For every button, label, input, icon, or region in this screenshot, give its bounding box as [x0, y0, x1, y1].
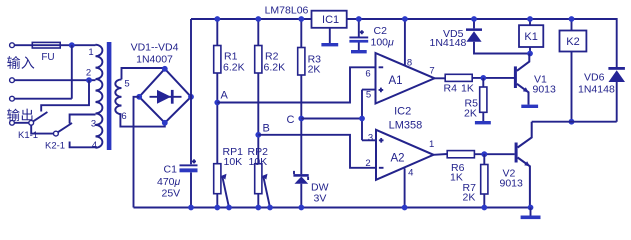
svg-text:4: 4: [408, 168, 413, 179]
svg-text:1: 1: [429, 139, 434, 150]
wire R4 to V1 base: [472, 77, 514, 79]
wire dot1 down to output-top: [71, 45, 73, 98]
ground R5: [475, 121, 491, 124]
svg-text:LM78L06: LM78L06: [265, 5, 309, 17]
svg-text:C2: C2: [374, 25, 388, 37]
svg-text:B: B: [263, 123, 270, 135]
svg-text:3: 3: [91, 119, 96, 130]
bridge inner diode: [150, 96, 182, 98]
op-amp A2: [376, 130, 434, 180]
svg-text:VD1--VD4: VD1--VD4: [131, 42, 179, 54]
svg-text:LM358: LM358: [389, 120, 423, 132]
svg-text:2K: 2K: [463, 192, 476, 204]
resistor R5: [482, 78, 484, 121]
wire top +V rail: [191, 19, 617, 67]
ground V1 emitter: [521, 105, 538, 108]
ground C2: [351, 50, 367, 53]
wire R6 to V2 base: [474, 153, 514, 155]
svg-text:10K: 10K: [224, 156, 243, 168]
wire node A to A1 pin6: [217, 67, 375, 102]
svg-text:2: 2: [86, 68, 91, 79]
node bridge top: [162, 66, 168, 72]
node B: [255, 132, 261, 138]
svg-text:3: 3: [368, 133, 373, 144]
op-amp A1: [376, 53, 435, 104]
resistor R6: [447, 151, 474, 158]
svg-text:1N4148: 1N4148: [430, 37, 467, 49]
wire bottom ground rail: [134, 207, 531, 209]
svg-text:10K: 10K: [249, 156, 268, 168]
contact K2-1 pivot: [54, 131, 59, 136]
resistor R1: [216, 19, 218, 164]
wire bridge right up to +rail and down through C1: [190, 19, 192, 208]
svg-text:25V: 25V: [162, 188, 181, 200]
wire tap4 to K2-1 lower fixed: [70, 142, 96, 148]
svg-text:6.2K: 6.2K: [223, 62, 245, 74]
svg-text:2: 2: [365, 158, 370, 169]
svg-text:K2: K2: [566, 36, 579, 48]
fuse FU: [32, 42, 60, 48]
pin 4 wire to ground rail: [404, 168, 406, 207]
diode VD6: [616, 67, 618, 122]
svg-text:1N4007: 1N4007: [136, 54, 173, 66]
svg-text:6: 6: [365, 69, 370, 80]
potentiometer RP2: [255, 164, 262, 194]
svg-text:A1: A1: [388, 75, 402, 87]
svg-text:K1-1: K1-1: [18, 130, 38, 141]
svg-text:K1: K1: [524, 31, 537, 43]
svg-text:3V: 3V: [314, 193, 327, 205]
svg-text:7: 7: [429, 66, 434, 77]
wire pin6 to bridge bottom: [120, 114, 164, 126]
ground at rail end: [528, 205, 534, 211]
relay coil K2: [560, 31, 587, 52]
svg-text:5: 5: [124, 79, 129, 90]
wire V2 collector line: [532, 121, 617, 123]
wire to tap 2: [15, 79, 96, 81]
pin 7 output wire: [435, 77, 446, 79]
contact K2-1 lever: [58, 123, 72, 132]
svg-text:2K: 2K: [308, 64, 321, 76]
wire K1-1 pivot to K2-1 pivot: [31, 125, 53, 133]
wire dot2 to K1-1 fixed contact: [41, 80, 89, 111]
label 输出: [7, 109, 32, 121]
wire: [15, 44, 96, 46]
wire bridge left to ground rail: [134, 97, 140, 208]
capacitor C2: [358, 19, 360, 50]
svg-text:4: 4: [92, 140, 97, 151]
bridge rectifier VD1--VD4: [139, 69, 191, 123]
svg-text:470μ: 470μ: [157, 176, 181, 188]
svg-text:C: C: [287, 114, 295, 126]
resistor R3: [300, 19, 302, 174]
svg-text:A2: A2: [390, 153, 404, 165]
svg-text:5: 5: [366, 90, 371, 101]
node bridge left: [136, 94, 142, 100]
resistor R2: [257, 19, 259, 164]
svg-text:1K: 1K: [461, 83, 474, 95]
capacitor C1: [180, 164, 198, 166]
svg-text:C1: C1: [164, 164, 178, 176]
ground IC1: [329, 28, 331, 43]
svg-text:100μ: 100μ: [371, 37, 395, 49]
svg-text:1: 1: [88, 47, 93, 58]
resistor R4: [445, 74, 472, 81]
transformer core: [107, 42, 112, 150]
wire pin5 to bridge top: [122, 68, 165, 79]
wire: [15, 122, 29, 124]
wire node C to A1 pin5 and A2 pin3: [301, 90, 376, 141]
svg-text:8: 8: [407, 58, 412, 69]
terminal 输入 top: [10, 43, 15, 48]
wire tap3 to K2-1 fixed: [70, 115, 96, 124]
transistor V1: [514, 66, 517, 88]
svg-text:1N4148: 1N4148: [578, 84, 615, 96]
svg-text:9013: 9013: [500, 178, 524, 190]
terminal 输出 bottom: [10, 120, 15, 125]
contact K1-1 pivot: [29, 120, 34, 125]
relay coil K1: [519, 25, 543, 47]
svg-text:A: A: [221, 90, 229, 102]
svg-text:6.2K: 6.2K: [264, 62, 286, 74]
pin 1 output wire: [434, 153, 448, 156]
contact K1-1 lever: [33, 112, 47, 121]
svg-text:K2-1: K2-1: [45, 141, 65, 152]
node A: [214, 100, 220, 106]
wire: [15, 98, 72, 100]
svg-text:1K: 1K: [450, 172, 463, 184]
svg-text:6: 6: [121, 111, 126, 122]
zener DW: [293, 174, 308, 177]
node C: [298, 116, 304, 122]
diode VD5: [474, 19, 530, 54]
transistor V2: [515, 143, 518, 163]
potentiometer RP1: [214, 164, 221, 194]
transformer secondary winding: [115, 79, 121, 114]
svg-text:FU: FU: [41, 52, 54, 63]
transformer T primary winding: [96, 45, 103, 148]
label 输入: [7, 56, 34, 69]
resistor R7: [483, 154, 485, 207]
node bridge right: [188, 94, 194, 100]
svg-text:2K: 2K: [464, 108, 477, 120]
svg-text:9013: 9013: [533, 84, 557, 96]
terminal 输出 top: [10, 96, 15, 101]
node dot1 after fuse: [69, 42, 75, 48]
node bridge bottom: [162, 120, 168, 126]
svg-text:R4: R4: [444, 83, 458, 95]
wire node B to A2 pin2: [258, 135, 376, 168]
terminal 输入 bottom: [10, 78, 15, 83]
svg-text:IC1: IC1: [322, 14, 339, 26]
pin 8 wire: [404, 19, 406, 66]
svg-text:VD6: VD6: [584, 72, 605, 84]
svg-text:IC2: IC2: [394, 106, 411, 118]
node dot2 tap2: [86, 77, 92, 83]
